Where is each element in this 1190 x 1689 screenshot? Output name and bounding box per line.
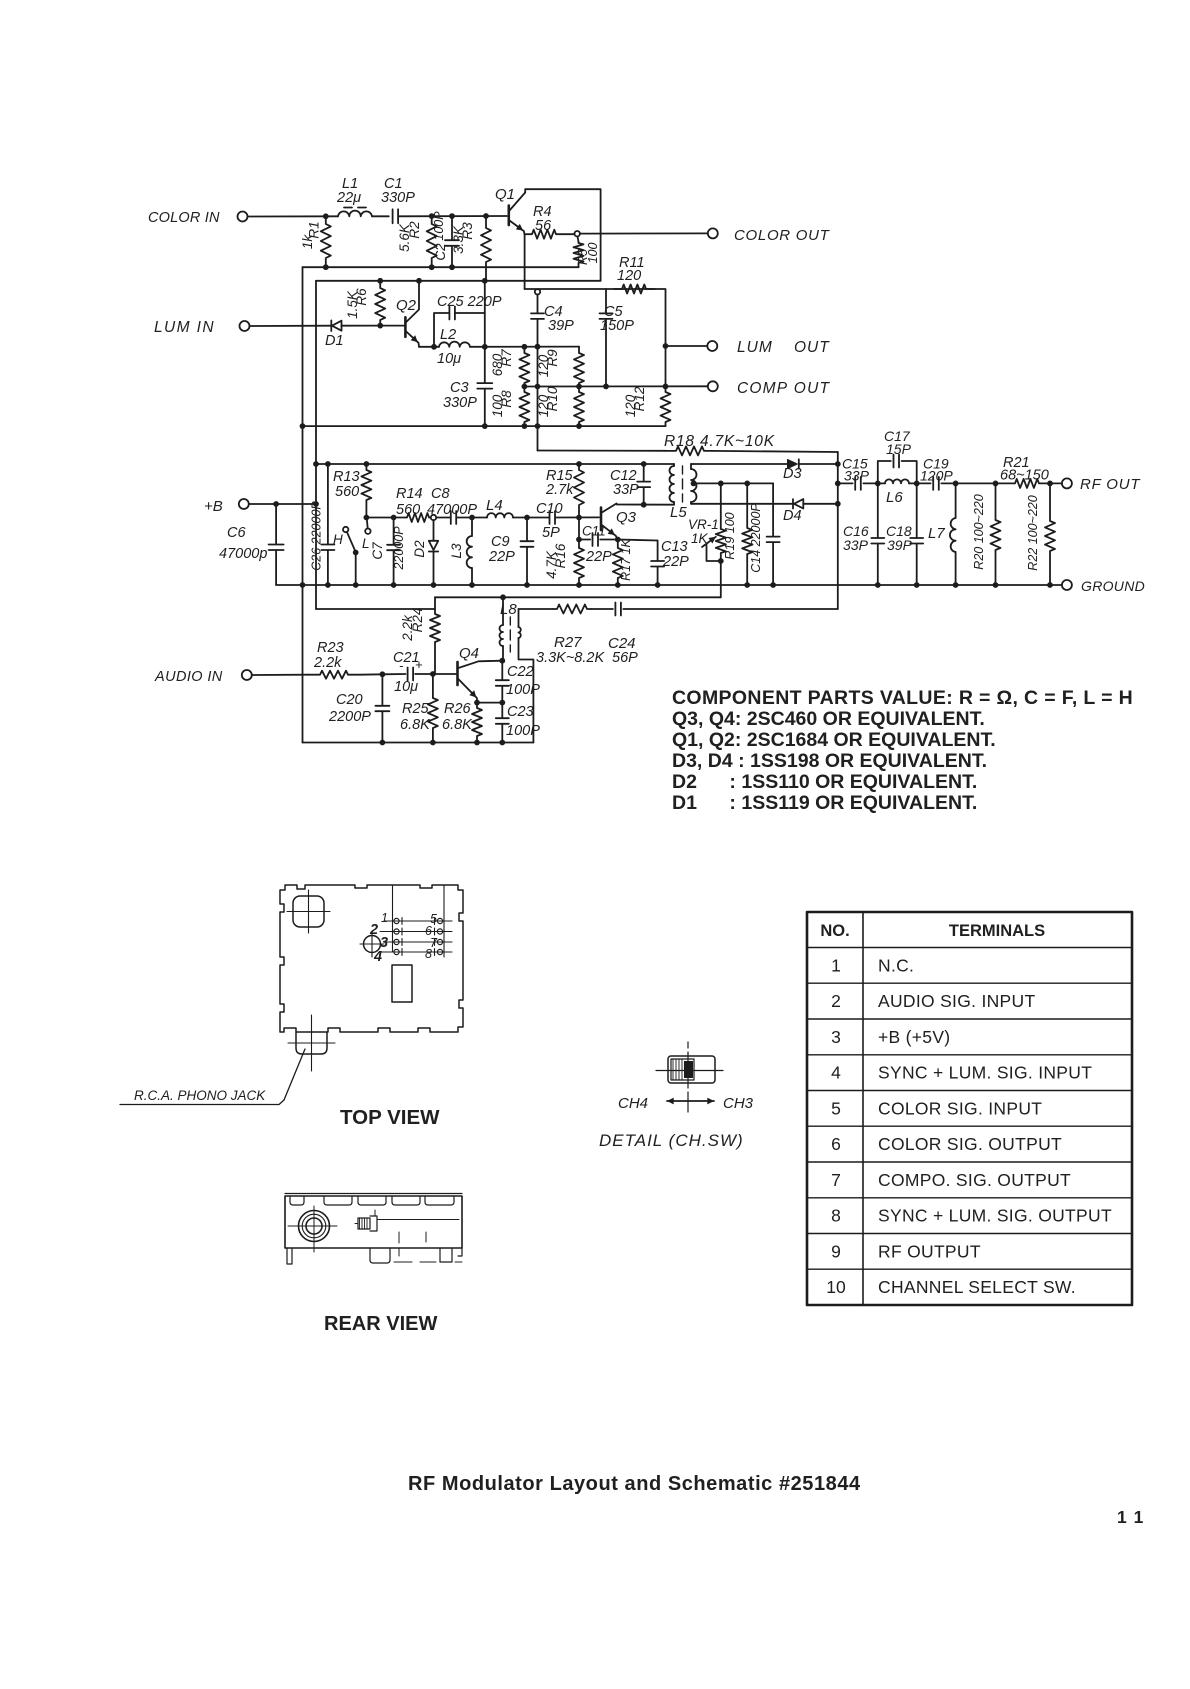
capacitor C16 33P xyxy=(877,483,879,537)
svg-text:COMPO. SIG. OUTPUT: COMPO. SIG. OUTPUT xyxy=(878,1170,1071,1190)
terminal RF OUT xyxy=(1062,478,1072,488)
svg-text:R10: R10 xyxy=(545,386,560,411)
wire L1 to C1 xyxy=(372,215,389,217)
svg-text:100P: 100P xyxy=(506,682,540,698)
inductor L2 10u xyxy=(439,342,470,347)
svg-text:R16: R16 xyxy=(553,543,568,568)
rear view top slots xyxy=(290,1196,304,1205)
svg-text:TOP VIEW: TOP VIEW xyxy=(340,1106,440,1129)
svg-text:6.8K: 6.8K xyxy=(400,717,431,733)
diode D3 xyxy=(694,463,788,465)
svg-text:120P: 120P xyxy=(920,468,953,484)
svg-text:D2: D2 xyxy=(412,540,427,558)
svg-text:H: H xyxy=(333,532,343,547)
resistor R23 2.2k xyxy=(252,674,308,676)
wire bottom rail of video section xyxy=(303,425,666,427)
svg-text:4: 4 xyxy=(831,1063,841,1083)
svg-text:D1: D1 xyxy=(325,333,344,349)
resistor R1 1k xyxy=(321,216,331,267)
svg-text:RF OUT: RF OUT xyxy=(1080,476,1141,493)
svg-text:L3: L3 xyxy=(449,543,464,559)
svg-text:68~150: 68~150 xyxy=(1000,468,1049,484)
svg-text:L5: L5 xyxy=(670,504,687,521)
svg-text:Q1: Q1 xyxy=(495,186,515,203)
resistor R17 1K xyxy=(613,540,623,586)
terminal COLOR OUT xyxy=(708,228,718,238)
svg-text:22000P: 22000P xyxy=(392,526,406,571)
top view pin row lines xyxy=(393,885,445,957)
svg-text:39P: 39P xyxy=(548,318,574,334)
svg-text:150P: 150P xyxy=(600,318,634,334)
svg-text:L6: L6 xyxy=(886,489,903,506)
wire D1 to Q2 base xyxy=(342,325,404,327)
svg-text:R18 4.7K~10K: R18 4.7K~10K xyxy=(664,433,775,450)
wire R11 line xyxy=(525,289,666,346)
svg-text:120: 120 xyxy=(617,268,641,284)
resistor R11 120 xyxy=(614,285,655,294)
svg-text:COMPONENT PARTS VALUE: R = Ω,: COMPONENT PARTS VALUE: R = Ω, C = F, L =… xyxy=(672,687,1133,709)
wire Q3 collector line xyxy=(617,504,674,506)
terminal +B xyxy=(239,499,249,509)
svg-text:C3: C3 xyxy=(450,380,469,396)
svg-text:NO.: NO. xyxy=(820,922,849,940)
wire vertical Q1 emitter to R11 line xyxy=(524,235,526,290)
svg-text:R20 100~220: R20 100~220 xyxy=(972,494,986,569)
wire C1 to Q1 base xyxy=(398,215,507,217)
svg-text:R14: R14 xyxy=(396,486,423,502)
svg-text:C22: C22 xyxy=(507,664,534,680)
svg-text:6: 6 xyxy=(831,1134,841,1154)
svg-text:2.7k: 2.7k xyxy=(545,482,574,498)
detail switch body xyxy=(668,1056,715,1083)
svg-text:D1 : 1SS119 OR EQUIVALENT: D1 : 1SS119 OR EQUIVALENT. xyxy=(672,792,977,814)
svg-text:Q2: Q2 xyxy=(396,297,417,314)
svg-text:C14 22000P: C14 22000P xyxy=(749,503,763,573)
wire LUM OUT xyxy=(663,343,669,349)
svg-text:TERMINALS: TERMINALS xyxy=(949,922,1045,940)
resistor R20 100~220 xyxy=(991,483,1001,585)
svg-text:C10: C10 xyxy=(536,501,563,517)
svg-text:33P: 33P xyxy=(843,537,869,553)
svg-text:100P: 100P xyxy=(506,723,540,739)
svg-text:AUDIO SIG. INPUT: AUDIO SIG. INPUT xyxy=(878,991,1035,1011)
capacitor C9 22P xyxy=(526,518,528,542)
svg-text:COMP OUT: COMP OUT xyxy=(737,380,830,397)
svg-text:Q4: Q4 xyxy=(459,645,479,662)
svg-text:COLOR SIG. OUTPUT: COLOR SIG. OUTPUT xyxy=(878,1134,1062,1154)
wire COMP line xyxy=(524,385,707,387)
wire bus R1-R2-C2 bottoms xyxy=(303,266,579,268)
top view module outline xyxy=(280,885,463,1032)
table row divider 4 xyxy=(807,1090,1132,1092)
terminal COMP OUT xyxy=(708,381,718,391)
table terminals outer border xyxy=(807,912,1132,1305)
svg-text:5: 5 xyxy=(831,1098,841,1118)
svg-text:R25: R25 xyxy=(402,701,430,717)
svg-text:R3: R3 xyxy=(460,222,475,240)
svg-text:+B (+5V): +B (+5V) xyxy=(878,1027,950,1047)
svg-text:Q3, Q4: 2SC460 OR EQUIVALENT.: Q3, Q4: 2SC460 OR EQUIVALENT. xyxy=(672,708,985,730)
svg-text:22P: 22P xyxy=(662,554,689,570)
node R4/R5/COLOR OUT junction xyxy=(575,231,580,236)
svg-text:C2: C2 xyxy=(433,243,448,261)
svg-text:8: 8 xyxy=(831,1206,841,1226)
table row divider 6 xyxy=(807,1161,1132,1163)
resistor R18 4.7K~10K xyxy=(538,450,667,452)
svg-text:C6: C6 xyxy=(227,525,246,541)
svg-text:100: 100 xyxy=(586,243,600,264)
inductor L7 xyxy=(955,483,957,518)
svg-text:5P: 5P xyxy=(542,525,560,541)
capacitor C19 120P xyxy=(933,477,939,490)
inductor L3 xyxy=(471,518,473,537)
leader line to jack xyxy=(284,1049,305,1100)
terminal AUDIO IN xyxy=(242,670,252,680)
rear view bottom tabs xyxy=(287,1248,292,1264)
resistor R6 1.5K xyxy=(375,281,385,326)
svg-text:LUM IN: LUM IN xyxy=(154,319,215,336)
svg-text:100P: 100P xyxy=(432,211,446,241)
svg-text:CH4: CH4 xyxy=(618,1095,648,1112)
svg-text:15P: 15P xyxy=(886,441,912,457)
rail Q2/R6/R3 collector bus xyxy=(316,280,601,282)
switch H/L channel select xyxy=(343,527,348,532)
capacitor C21 10u xyxy=(382,673,405,675)
node D2 top xyxy=(431,515,436,520)
resistor R27 3.3K~8.2K xyxy=(519,608,554,610)
diode D1 xyxy=(330,320,332,331)
wire left outer vertical xyxy=(302,267,304,742)
svg-text:CH3: CH3 xyxy=(723,1095,754,1112)
rear view body outline xyxy=(285,1196,462,1248)
wire Q1 collector box xyxy=(525,189,600,281)
top view channel switch circle xyxy=(364,936,381,953)
rear view rca jack circles xyxy=(299,1211,330,1242)
resistor R8 100 xyxy=(519,387,529,427)
table row divider 9 xyxy=(807,1268,1132,1270)
svg-text:DETAIL (CH.SW): DETAIL (CH.SW) xyxy=(599,1131,744,1150)
svg-text:C9: C9 xyxy=(491,534,510,550)
wire RF output line xyxy=(838,482,853,484)
capacitor C17 15P bypass xyxy=(878,461,891,483)
top view component rectangle xyxy=(392,965,412,1002)
svg-text:N.C.: N.C. xyxy=(878,955,914,975)
table row divider 5 xyxy=(807,1125,1132,1127)
detail crosshair xyxy=(687,1042,689,1112)
table row divider 3 xyxy=(807,1054,1132,1056)
capacitor C2 100P xyxy=(451,216,453,240)
top view rca jack tab xyxy=(296,1032,327,1054)
capacitor C12 33P xyxy=(643,464,645,481)
svg-text:Q1, Q2: 2SC1684 OR EQUIVALENT.: Q1, Q2: 2SC1684 OR EQUIVALENT. xyxy=(672,729,996,751)
resistor R5 100 xyxy=(578,236,579,242)
table row divider 8 xyxy=(807,1233,1132,1235)
svg-text:RF OUTPUT: RF OUTPUT xyxy=(878,1241,981,1261)
wire audio ground rail xyxy=(303,742,534,744)
resistor R10 120 xyxy=(574,387,584,427)
svg-text:R7: R7 xyxy=(499,349,514,367)
wire COMP to R18 dropper xyxy=(537,347,539,451)
wire audio top rail xyxy=(435,596,721,598)
svg-text:56P: 56P xyxy=(612,650,638,666)
resistor R22 100~220 xyxy=(1045,483,1055,585)
svg-text:C25 220P: C25 220P xyxy=(437,294,502,310)
svg-text:GROUND: GROUND xyxy=(1081,578,1145,594)
capacitor C6 47000p xyxy=(275,504,277,544)
svg-text:R19 100: R19 100 xyxy=(723,512,737,559)
svg-text:COLOR OUT: COLOR OUT xyxy=(734,227,831,244)
svg-text:3: 3 xyxy=(831,1027,841,1047)
top view mounting hole xyxy=(293,896,324,927)
svg-text:L7: L7 xyxy=(928,525,945,542)
capacitor C10 5P xyxy=(550,511,556,524)
resistor R12 120 xyxy=(665,346,667,386)
wire COLOR IN to L1 xyxy=(248,215,338,217)
svg-text:D2 : 1SS110 OR EQUIVALENT: D2 : 1SS110 OR EQUIVALENT. xyxy=(672,771,977,793)
resistor R25 6.8k xyxy=(428,674,438,743)
wire lower-left link xyxy=(316,608,435,610)
table column divider xyxy=(862,912,864,1305)
wire left inner vertical xyxy=(315,281,317,609)
resistor R7 680 xyxy=(519,347,529,387)
wire L5 tap xyxy=(691,481,697,487)
svg-text:2.2k: 2.2k xyxy=(313,655,342,671)
capacitor C20 2200P xyxy=(381,674,383,705)
terminal GROUND xyxy=(1062,580,1072,590)
resistor R16 4.7K xyxy=(578,518,580,540)
svg-text:R1: R1 xyxy=(307,221,322,238)
svg-text:9: 9 xyxy=(831,1241,841,1261)
inductor L4 xyxy=(487,513,513,517)
terminal LUM OUT xyxy=(707,341,717,351)
capacitor C3 330P xyxy=(484,347,486,383)
svg-text:L2: L2 xyxy=(440,327,456,343)
svg-text:CHANNEL SELECT SW.: CHANNEL SELECT SW. xyxy=(878,1277,1076,1297)
svg-text:4: 4 xyxy=(373,949,382,965)
svg-text:6.8K: 6.8K xyxy=(442,717,473,733)
svg-text:R26: R26 xyxy=(444,701,472,717)
svg-text:REAR VIEW: REAR VIEW xyxy=(324,1313,437,1335)
resistor R21 68~150 xyxy=(1014,479,1062,488)
svg-text:R6: R6 xyxy=(354,288,369,306)
wire Q2 emitter line xyxy=(419,346,439,348)
capacitor C4 39P with stub xyxy=(535,289,540,294)
svg-text:D3, D4 : 1SS198 OR EQUIVALENT.: D3, D4 : 1SS198 OR EQUIVALENT. xyxy=(672,750,987,772)
resistor R14 560 xyxy=(406,513,433,522)
capacitor C14 22000P xyxy=(772,483,774,536)
inductor L1 xyxy=(338,211,372,217)
svg-text:1 1: 1 1 xyxy=(1117,1507,1144,1527)
wire ground rail xyxy=(276,584,1062,586)
svg-text:10μ: 10μ xyxy=(394,679,418,695)
capacitor C18 39P xyxy=(916,483,918,537)
inductor L6 xyxy=(885,479,909,483)
svg-text:R12: R12 xyxy=(632,386,647,411)
svg-text:C26 22000P: C26 22000P xyxy=(310,501,324,571)
svg-text:R.C.A. PHONO JACK: R.C.A. PHONO JACK xyxy=(134,1088,266,1103)
svg-text:2: 2 xyxy=(831,991,841,1011)
svg-text:R17 1K: R17 1K xyxy=(619,538,633,580)
diode D4 xyxy=(691,503,793,505)
table row divider 7 xyxy=(807,1197,1132,1199)
svg-text:Q3: Q3 xyxy=(616,509,637,526)
svg-text:R24: R24 xyxy=(410,608,425,633)
svg-text:D4: D4 xyxy=(783,508,802,524)
svg-text:47000P: 47000P xyxy=(427,502,477,518)
capacitor C24 56P xyxy=(615,603,621,616)
wire to COLOR OUT xyxy=(580,232,708,234)
resistor R2 5.6K xyxy=(427,216,437,267)
capacitor C7 22000P xyxy=(393,518,395,545)
capacitor C25 220P parallel loop xyxy=(434,313,449,347)
capacitor C23 100P xyxy=(501,703,503,718)
capacitor C22 100P xyxy=(501,661,503,680)
svg-text:22μ: 22μ xyxy=(336,190,361,206)
table row divider 2 xyxy=(807,1018,1132,1020)
svg-text:22P: 22P xyxy=(488,549,515,565)
resistor R19 100 xyxy=(742,483,752,585)
svg-text:R8: R8 xyxy=(499,390,514,408)
svg-text:56: 56 xyxy=(535,218,552,234)
svg-text:SYNC + LUM. SIG. INPUT: SYNC + LUM. SIG. INPUT xyxy=(878,1063,1092,1083)
svg-text:33P: 33P xyxy=(613,482,639,498)
svg-text:C8: C8 xyxy=(431,486,450,502)
resistor R4 56 xyxy=(525,230,575,239)
diode D2 xyxy=(433,520,435,540)
svg-text:R27: R27 xyxy=(554,634,582,651)
svg-text:L: L xyxy=(362,536,370,551)
terminal LUM IN xyxy=(240,321,250,331)
svg-text:VR-1: VR-1 xyxy=(688,517,719,532)
svg-text:1: 1 xyxy=(381,911,388,925)
svg-text:R13: R13 xyxy=(333,469,360,485)
wire Q4 emitter line xyxy=(477,702,502,704)
svg-text:C11: C11 xyxy=(582,524,606,539)
svg-text:10μ: 10μ xyxy=(437,351,461,367)
svg-text:33P: 33P xyxy=(844,468,870,484)
svg-text:22P: 22P xyxy=(585,549,612,565)
capacitor C11 22P xyxy=(579,539,590,541)
svg-text:8: 8 xyxy=(425,947,432,961)
resistor R24 2.2k xyxy=(430,597,440,673)
table row divider 1 xyxy=(807,982,1132,984)
detail arrows CH4/CH3 xyxy=(667,1100,688,1102)
svg-text:LUM OUT: LUM OUT xyxy=(737,339,830,356)
capacitor C26 22000P xyxy=(327,464,329,544)
svg-text:R22 100~220: R22 100~220 xyxy=(1026,495,1040,570)
svg-text:10: 10 xyxy=(826,1277,846,1297)
svg-text:47000p: 47000p xyxy=(219,546,267,562)
wire oscillator top rail xyxy=(316,463,674,465)
resistor R13 560 xyxy=(361,464,371,518)
transformer L5 xyxy=(673,464,675,466)
wire +B feed xyxy=(249,503,316,505)
svg-text:C7: C7 xyxy=(370,542,385,560)
svg-text:39P: 39P xyxy=(887,537,913,553)
svg-text:R23: R23 xyxy=(317,640,344,656)
svg-text:D3: D3 xyxy=(783,466,802,482)
svg-text:SYNC + LUM. SIG. OUTPUT: SYNC + LUM. SIG. OUTPUT xyxy=(878,1206,1112,1226)
svg-text:330P: 330P xyxy=(381,190,415,206)
capacitor C8 47000P xyxy=(436,517,450,519)
svg-text:330P: 330P xyxy=(443,395,477,411)
svg-text:R9: R9 xyxy=(545,349,560,367)
capacitor C13 22P xyxy=(657,541,659,561)
svg-text:COLOR IN: COLOR IN xyxy=(148,210,220,226)
wire Q3 emitter to C13 xyxy=(618,540,658,541)
svg-text:+B: +B xyxy=(204,498,223,515)
svg-text:2200P: 2200P xyxy=(328,709,371,725)
svg-text:7: 7 xyxy=(831,1170,841,1190)
wire LUM IN to D1 xyxy=(250,325,332,327)
resistor R9 120 xyxy=(574,347,584,387)
svg-text:R2: R2 xyxy=(407,221,422,239)
svg-text:RF Modulator Layout and Schema: RF Modulator Layout and Schematic #25184… xyxy=(408,1473,861,1495)
svg-text:COLOR SIG. INPUT: COLOR SIG. INPUT xyxy=(878,1098,1042,1118)
wire oscillator base line xyxy=(366,517,406,519)
resistor R15 2.7k xyxy=(574,464,584,518)
svg-text:+: + xyxy=(415,657,423,672)
resistor R26 6.8k xyxy=(472,703,482,743)
svg-text:C13: C13 xyxy=(661,539,688,555)
svg-text:2: 2 xyxy=(369,922,378,938)
svg-text:AUDIO IN: AUDIO IN xyxy=(154,669,223,685)
svg-text:1: 1 xyxy=(831,955,841,975)
svg-text:-: - xyxy=(399,658,404,673)
detail switch knob hatched xyxy=(671,1059,694,1080)
capacitor C15 33P xyxy=(855,477,861,490)
svg-text:560: 560 xyxy=(335,484,359,500)
wire feedback right vertical xyxy=(837,452,839,609)
table header row divider xyxy=(807,947,1132,949)
svg-text:L4: L4 xyxy=(486,497,503,514)
svg-text:C23: C23 xyxy=(507,704,534,720)
capacitor C5 150P xyxy=(605,289,607,313)
capacitor C1 330P xyxy=(393,209,399,223)
resistor R3 3.3K xyxy=(481,216,491,281)
terminal COLOR IN xyxy=(238,212,248,222)
rear view switch lever xyxy=(358,1218,370,1229)
svg-text:560: 560 xyxy=(396,502,420,518)
svg-text:3.3K~8.2K: 3.3K~8.2K xyxy=(536,650,605,666)
svg-text:C20: C20 xyxy=(336,692,363,708)
